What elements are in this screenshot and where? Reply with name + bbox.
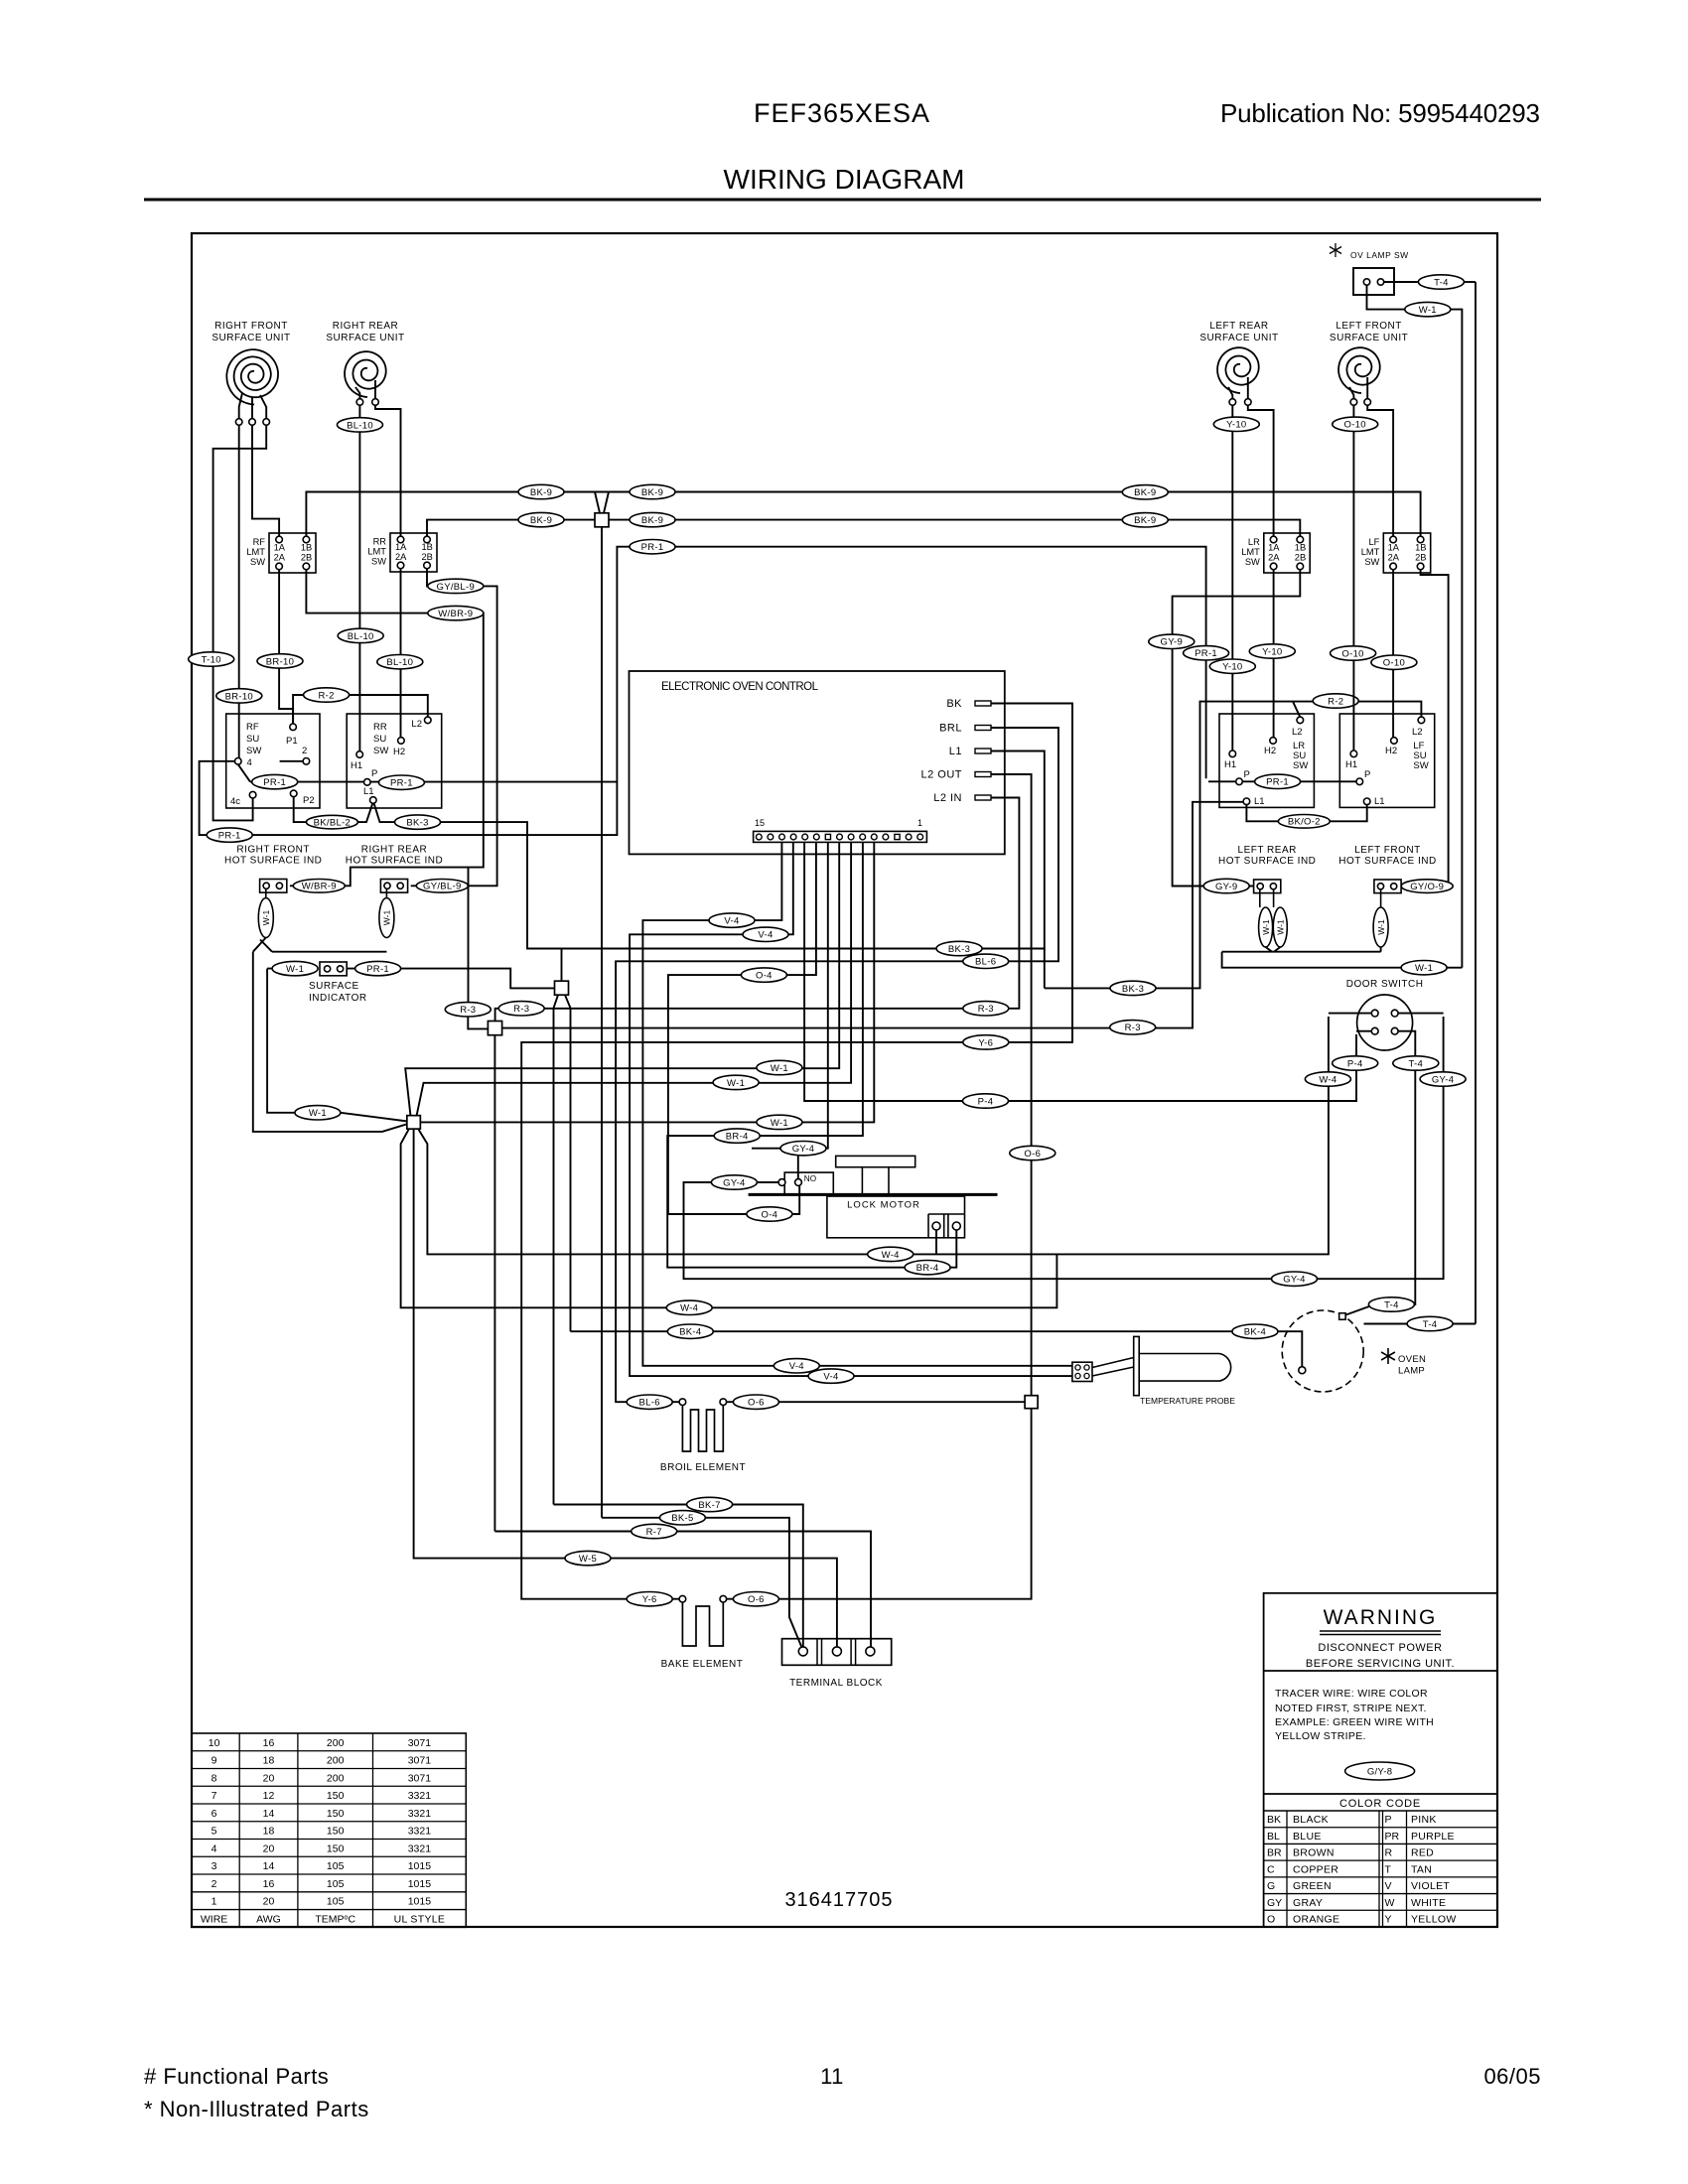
wire P-4: EOC terminal 11 to door switch bbox=[804, 842, 1356, 1101]
svg-text:BR: BR bbox=[1267, 1847, 1282, 1859]
svg-text:BK-3: BK-3 bbox=[1122, 984, 1144, 995]
svg-text:T-4: T-4 bbox=[1384, 1299, 1399, 1310]
wire label O-4 bbox=[747, 1207, 792, 1221]
svg-text:P-4: P-4 bbox=[1347, 1058, 1363, 1069]
svg-text:RIGHT REAR: RIGHT REAR bbox=[333, 321, 399, 332]
wire label GY-4 bbox=[780, 1142, 826, 1156]
svg-text:2: 2 bbox=[211, 1878, 217, 1890]
svg-text:1B: 1B bbox=[301, 543, 312, 553]
ov lamp sw bbox=[1335, 243, 1336, 257]
svg-text:LEFT FRONT: LEFT FRONT bbox=[1336, 321, 1401, 332]
svg-text:SW: SW bbox=[246, 746, 261, 756]
wire label GY-9 bbox=[1149, 634, 1195, 648]
svg-text:16: 16 bbox=[263, 1878, 275, 1890]
svg-text:L1: L1 bbox=[1374, 796, 1385, 807]
svg-text:7: 7 bbox=[211, 1790, 217, 1802]
svg-text:16: 16 bbox=[263, 1737, 275, 1749]
wire BK-9 bus top bbox=[306, 492, 1420, 537]
wire O-6: junction up to EOC L2 OUT bbox=[991, 774, 1032, 1396]
svg-text:1A: 1A bbox=[395, 542, 407, 552]
wire label R-2 bbox=[1313, 694, 1358, 708]
wire label W-1 bbox=[1401, 961, 1447, 975]
svg-text:R-7: R-7 bbox=[646, 1527, 662, 1538]
wire T-4: oven lamp right to top bbox=[1364, 1323, 1408, 1325]
wire GY/BL-9: RR LMT 2B to RR hot surface ind bbox=[411, 569, 497, 887]
wire label GY-4 bbox=[711, 1175, 757, 1189]
svg-text:SU: SU bbox=[373, 734, 386, 745]
wire PR-1 loop: 4 circle to right bus bbox=[200, 547, 1206, 835]
svg-text:5: 5 bbox=[211, 1826, 217, 1838]
wire BK-3: EOC L1 branch to R-2 bus bbox=[1044, 949, 1046, 989]
wire gauge table bbox=[192, 1733, 466, 1927]
svg-text:150: 150 bbox=[327, 1826, 345, 1838]
svg-text:G: G bbox=[1267, 1880, 1275, 1892]
wire R-2 branch to LR L2 bbox=[1293, 702, 1300, 718]
svg-text:L1: L1 bbox=[363, 786, 374, 797]
wire label W/BR-9 bbox=[428, 606, 484, 619]
svg-text:WARNING: WARNING bbox=[1324, 1606, 1438, 1629]
svg-text:PR-1: PR-1 bbox=[366, 964, 389, 975]
wire PR-1 long: RF SU 4 arm across to LF SU P bbox=[238, 764, 250, 782]
wire label BK/O-2 bbox=[1278, 815, 1330, 829]
svg-text:VIOLET: VIOLET bbox=[1411, 1880, 1450, 1892]
RR SU SW switch bbox=[347, 714, 442, 808]
wire R-3 right: junction 2 to LR L1 bbox=[502, 802, 1244, 1028]
svg-text:PR: PR bbox=[1385, 1831, 1400, 1843]
junction BK-9 V-split bbox=[595, 492, 600, 513]
junction square 2 bbox=[488, 1022, 501, 1035]
svg-text:BR-10: BR-10 bbox=[225, 691, 253, 702]
svg-text:SURFACE UNIT: SURFACE UNIT bbox=[1199, 333, 1278, 343]
svg-text:150: 150 bbox=[327, 1790, 345, 1802]
svg-text:LEFT FRONT: LEFT FRONT bbox=[1354, 845, 1420, 856]
wire label W-1 vertical under RR indicator bbox=[385, 889, 387, 898]
svg-text:R-3: R-3 bbox=[978, 1004, 994, 1015]
svg-text:200: 200 bbox=[327, 1772, 345, 1784]
wire W-4: junction 3 left leg to door switch bbox=[401, 1129, 1057, 1307]
svg-text:SW: SW bbox=[1293, 760, 1308, 771]
svg-text:SURFACE UNIT: SURFACE UNIT bbox=[211, 333, 290, 343]
svg-text:O-10: O-10 bbox=[1341, 648, 1363, 659]
svg-text:R-2: R-2 bbox=[1328, 696, 1343, 707]
wire label PR-1 bbox=[207, 828, 252, 842]
wire W-1 from ov lamp sw bbox=[1367, 285, 1405, 309]
svg-text:P2: P2 bbox=[303, 795, 315, 806]
svg-text:W-4: W-4 bbox=[882, 1250, 900, 1261]
wire Y-10: LR LMT 2A to LR SU H2 bbox=[1273, 570, 1275, 738]
svg-text:2B: 2B bbox=[1295, 553, 1306, 563]
wire label W-1 vertical under LF indicator bbox=[1380, 889, 1382, 907]
svg-text:1B: 1B bbox=[422, 542, 433, 552]
svg-text:W-4: W-4 bbox=[680, 1303, 698, 1314]
wire label O-6 bbox=[1010, 1146, 1055, 1160]
wire label Y-10 bbox=[1209, 659, 1255, 673]
svg-text:NO: NO bbox=[804, 1174, 816, 1183]
svg-text:L2: L2 bbox=[411, 719, 422, 730]
svg-text:3071: 3071 bbox=[408, 1737, 432, 1749]
wire label G/Y-8 example bbox=[1345, 1762, 1415, 1780]
svg-text:PR-1: PR-1 bbox=[1266, 777, 1289, 788]
wire label R-3 bbox=[498, 1002, 544, 1016]
svg-text:ELECTRONIC OVEN CONTROL: ELECTRONIC OVEN CONTROL bbox=[661, 681, 819, 693]
svg-text:LOCK MOTOR: LOCK MOTOR bbox=[847, 1200, 920, 1211]
svg-text:1A: 1A bbox=[1388, 543, 1400, 553]
svg-text:BK-9: BK-9 bbox=[641, 487, 663, 498]
svg-text:TEMPERATURE PROBE: TEMPERATURE PROBE bbox=[1140, 1396, 1235, 1406]
svg-text:GY: GY bbox=[1267, 1897, 1282, 1909]
svg-text:OVEN: OVEN bbox=[1398, 1354, 1426, 1365]
svg-text:18: 18 bbox=[263, 1826, 275, 1838]
svg-text:BK-9: BK-9 bbox=[530, 515, 552, 526]
svg-text:3071: 3071 bbox=[408, 1755, 432, 1767]
wire label T-10 bbox=[189, 652, 234, 666]
svg-text:W-1: W-1 bbox=[771, 1118, 788, 1129]
svg-text:H2: H2 bbox=[393, 747, 405, 757]
wire label O-10 bbox=[1331, 646, 1376, 660]
svg-text:RIGHT FRONT: RIGHT FRONT bbox=[236, 845, 310, 856]
wire BK-7: junction to terminal block 1 bbox=[554, 995, 559, 1504]
wire label BL-10 bbox=[377, 655, 423, 669]
wire GY-9: LR LMT 2B to LR hot surface ind bbox=[1173, 570, 1301, 635]
svg-text:W/BR-9: W/BR-9 bbox=[302, 882, 337, 892]
svg-text:4: 4 bbox=[211, 1843, 217, 1854]
svg-text:SW: SW bbox=[250, 557, 265, 567]
lock motor switch NO bbox=[784, 1172, 833, 1193]
wire LF coil right to LF LMT 1A bbox=[1367, 406, 1393, 536]
wire W-1: cross to junction 3 lower bbox=[253, 952, 407, 1132]
wire label R-7 bbox=[632, 1524, 677, 1538]
svg-text:HOT SURFACE IND: HOT SURFACE IND bbox=[346, 856, 443, 867]
wire label V-4 bbox=[808, 1369, 854, 1383]
wire W-1: junction 3 right to EOC terminal 5 bbox=[420, 842, 874, 1122]
svg-text:T-4: T-4 bbox=[1408, 1058, 1423, 1069]
svg-text:RF: RF bbox=[253, 537, 266, 547]
wire BL-6: EOC BRL to broil element bbox=[616, 728, 1058, 1402]
svg-text:RR: RR bbox=[373, 722, 387, 733]
svg-text:W-4: W-4 bbox=[1319, 1074, 1336, 1085]
svg-text:GY-4: GY-4 bbox=[792, 1144, 815, 1155]
svg-text:HOT SURFACE IND: HOT SURFACE IND bbox=[224, 856, 322, 867]
svg-text:10: 10 bbox=[209, 1737, 220, 1749]
svg-text:G/Y-8: G/Y-8 bbox=[1367, 1766, 1392, 1777]
svg-text:200: 200 bbox=[327, 1755, 345, 1767]
wire label W-4 bbox=[1305, 1072, 1350, 1086]
svg-text:NOTED FIRST, STRIPE NEXT.: NOTED FIRST, STRIPE NEXT. bbox=[1275, 1703, 1427, 1714]
wire label Y-6 bbox=[963, 1035, 1009, 1049]
wire label V-4 bbox=[774, 1359, 819, 1373]
wire BK-9 bus second bbox=[427, 520, 595, 537]
wire label Y-10 bbox=[1249, 644, 1295, 658]
svg-text:WIRING DIAGRAM: WIRING DIAGRAM bbox=[724, 164, 965, 195]
svg-text:O-4: O-4 bbox=[756, 971, 773, 982]
svg-text:UL STYLE: UL STYLE bbox=[394, 1913, 446, 1925]
svg-text:PR-1: PR-1 bbox=[218, 831, 241, 842]
wire BL-10: RR LMT 2A to H2 bbox=[400, 569, 402, 737]
wire label W-1 bbox=[757, 1060, 802, 1074]
wire label BK-4 bbox=[667, 1324, 713, 1338]
svg-text:BK-9: BK-9 bbox=[530, 487, 552, 498]
wire LR coil right to LR LMT 1A bbox=[1248, 406, 1274, 536]
wire label W-4 bbox=[868, 1247, 914, 1261]
svg-text:3321: 3321 bbox=[408, 1808, 432, 1820]
LR SU SW switch bbox=[1219, 714, 1314, 807]
svg-text:V-4: V-4 bbox=[823, 1372, 838, 1383]
svg-text:1: 1 bbox=[211, 1896, 217, 1908]
wire BK/BL-2: P2 to RR L1 bbox=[294, 797, 373, 822]
svg-text:ORANGE: ORANGE bbox=[1293, 1914, 1339, 1926]
wire label PR-1 bbox=[252, 774, 298, 788]
wire label T-4 bbox=[1368, 1297, 1414, 1311]
svg-text:WHITE: WHITE bbox=[1411, 1897, 1446, 1909]
svg-text:BK: BK bbox=[946, 698, 962, 710]
svg-text:P-4: P-4 bbox=[978, 1096, 994, 1107]
svg-text:BK-7: BK-7 bbox=[698, 1500, 720, 1511]
LR LMT SW switch bbox=[1264, 533, 1310, 573]
temperature probe bbox=[1072, 1362, 1092, 1381]
svg-text:BK-3: BK-3 bbox=[948, 944, 970, 955]
svg-text:8: 8 bbox=[211, 1772, 217, 1784]
main diagram border bbox=[192, 233, 1497, 1927]
svg-text:R-3: R-3 bbox=[460, 1005, 476, 1016]
svg-text:20: 20 bbox=[263, 1843, 275, 1854]
wire label T-4 bbox=[1407, 1316, 1453, 1330]
bake element bbox=[679, 1595, 686, 1602]
svg-text:LMT: LMT bbox=[246, 547, 265, 557]
svg-text:Y-10: Y-10 bbox=[1262, 646, 1282, 657]
wire BL-10: RR coil terminal 1 to H1 bbox=[358, 405, 360, 751]
wire BK-4: junction to oven lamp bbox=[565, 995, 571, 1331]
svg-text:W-1: W-1 bbox=[1276, 919, 1286, 935]
svg-text:O-4: O-4 bbox=[762, 1209, 778, 1220]
svg-text:LMT: LMT bbox=[1241, 547, 1260, 557]
svg-text:W-5: W-5 bbox=[579, 1554, 597, 1565]
svg-text:W-1: W-1 bbox=[286, 964, 304, 975]
svg-text:TERMINAL BLOCK: TERMINAL BLOCK bbox=[789, 1678, 883, 1689]
svg-text:GRAY: GRAY bbox=[1293, 1897, 1323, 1909]
wire label BK-3 bbox=[1110, 981, 1156, 995]
svg-text:RF: RF bbox=[246, 722, 259, 733]
wire O-10: LF coil to H1 bbox=[1352, 406, 1354, 751]
svg-text:HOT SURFACE IND: HOT SURFACE IND bbox=[1218, 856, 1316, 867]
svg-text:1015: 1015 bbox=[408, 1878, 432, 1890]
wire label P-4 bbox=[963, 1094, 1009, 1108]
svg-text:V-4: V-4 bbox=[758, 930, 773, 941]
wire label BK-3 bbox=[395, 815, 441, 829]
svg-text:4: 4 bbox=[247, 757, 252, 768]
svg-text:SW: SW bbox=[371, 557, 386, 567]
svg-text:L1: L1 bbox=[949, 746, 962, 757]
svg-text:Y-6: Y-6 bbox=[642, 1594, 657, 1605]
svg-text:YELLOW: YELLOW bbox=[1411, 1914, 1457, 1926]
wire W-1 surface indicator left bbox=[267, 968, 295, 970]
wire label BR-4 bbox=[714, 1129, 760, 1143]
wire label GY/BL-9 bbox=[416, 880, 468, 893]
svg-text:LF: LF bbox=[1368, 537, 1379, 547]
svg-text:BK-9: BK-9 bbox=[1134, 515, 1156, 526]
svg-text:PURPLE: PURPLE bbox=[1411, 1831, 1455, 1843]
svg-text:1A: 1A bbox=[1268, 543, 1280, 553]
svg-text:1015: 1015 bbox=[408, 1860, 432, 1872]
wire label BR-4 bbox=[905, 1261, 950, 1275]
svg-text:150: 150 bbox=[327, 1808, 345, 1820]
svg-text:W-1: W-1 bbox=[382, 910, 392, 926]
svg-text:O-6: O-6 bbox=[748, 1398, 765, 1409]
svg-text:Publication No: 5995440293: Publication No: 5995440293 bbox=[1220, 98, 1540, 128]
svg-text:105: 105 bbox=[327, 1860, 345, 1872]
wire label V-4 bbox=[709, 913, 755, 927]
svg-text:V-4: V-4 bbox=[724, 916, 739, 927]
svg-text:14: 14 bbox=[263, 1808, 275, 1820]
wire label BL-10 bbox=[338, 418, 383, 432]
LF SU SW switch bbox=[1339, 714, 1434, 807]
svg-text:PR-1: PR-1 bbox=[390, 778, 413, 789]
wire label GY/O-9 bbox=[1401, 880, 1453, 893]
wire label W-1 vertical under RF indicator bbox=[265, 889, 267, 898]
wire label W/BR-9 bbox=[293, 880, 345, 893]
wire label PR-1 bbox=[1255, 774, 1301, 788]
wire R-7: junction 2 to terminal block 3 bbox=[493, 1035, 495, 1532]
svg-text:2A: 2A bbox=[274, 553, 286, 563]
svg-text:W-1: W-1 bbox=[261, 910, 271, 926]
svg-text:DISCONNECT POWER: DISCONNECT POWER bbox=[1318, 1642, 1442, 1654]
svg-text:GY/BL-9: GY/BL-9 bbox=[423, 882, 462, 892]
svg-text:H1: H1 bbox=[351, 760, 362, 771]
svg-text:INDICATOR: INDICATOR bbox=[309, 993, 367, 1004]
wire W-4: junction 3 right leg along lock motor to door switch bbox=[418, 1017, 1329, 1254]
wire label BK-4 bbox=[1232, 1324, 1278, 1338]
svg-text:BL-6: BL-6 bbox=[975, 957, 996, 968]
svg-text:PINK: PINK bbox=[1411, 1814, 1437, 1826]
svg-text:HOT SURFACE IND: HOT SURFACE IND bbox=[1338, 856, 1436, 867]
svg-text:LMT: LMT bbox=[1361, 547, 1380, 557]
lock motor bbox=[836, 1156, 915, 1166]
wire label BR-10 bbox=[257, 654, 303, 668]
svg-text:4c: 4c bbox=[230, 796, 240, 807]
svg-text:R-3: R-3 bbox=[1125, 1023, 1141, 1033]
svg-text:105: 105 bbox=[327, 1896, 345, 1908]
svg-text:SW: SW bbox=[373, 746, 388, 756]
svg-text:PR-1: PR-1 bbox=[263, 777, 286, 788]
svg-text:BEFORE SERVICING UNIT.: BEFORE SERVICING UNIT. bbox=[1306, 1658, 1455, 1670]
svg-text:O-10: O-10 bbox=[1344, 420, 1366, 431]
wire label GY-4 bbox=[1420, 1072, 1466, 1086]
svg-text:WIRE: WIRE bbox=[201, 1913, 227, 1925]
electronic oven control box bbox=[630, 671, 1005, 854]
svg-text:GY-9: GY-9 bbox=[1161, 637, 1184, 648]
svg-text:BK-4: BK-4 bbox=[679, 1327, 701, 1338]
svg-text:2B: 2B bbox=[301, 553, 312, 563]
wire label R-3 bbox=[445, 1003, 491, 1017]
junction square O-6 bbox=[1025, 1396, 1038, 1409]
wire label R-3 bbox=[1110, 1021, 1156, 1034]
svg-text:FEF365XESA: FEF365XESA bbox=[754, 98, 930, 128]
svg-text:BK/BL-2: BK/BL-2 bbox=[314, 818, 351, 829]
junction square BK wires bbox=[561, 949, 563, 982]
wire W-5: junction 3 center to terminal block 2 bbox=[414, 1129, 837, 1647]
svg-text:BR-4: BR-4 bbox=[726, 1132, 749, 1143]
svg-text:BRL: BRL bbox=[939, 723, 962, 735]
wire GY/O-9: LF LMT 2B to LF hot surface ind bbox=[1405, 570, 1449, 887]
svg-text:DOOR SWITCH: DOOR SWITCH bbox=[1346, 979, 1424, 990]
wire label PR-1 bbox=[355, 961, 401, 975]
wire label O-10 bbox=[1371, 655, 1417, 669]
wire label R-2 bbox=[304, 688, 350, 702]
svg-text:H2: H2 bbox=[1385, 746, 1397, 756]
color code table bbox=[1264, 1810, 1497, 1812]
svg-text:RIGHT FRONT: RIGHT FRONT bbox=[214, 321, 288, 332]
wire label BL-6 bbox=[963, 954, 1009, 968]
svg-text:SW: SW bbox=[1245, 557, 1260, 567]
svg-text:2A: 2A bbox=[1388, 553, 1400, 563]
wire label Y-10 bbox=[1213, 417, 1259, 431]
EOC terminal strip bbox=[754, 831, 927, 842]
svg-text:H2: H2 bbox=[1264, 746, 1276, 756]
svg-text:BAKE ELEMENT: BAKE ELEMENT bbox=[661, 1659, 744, 1670]
title underline bbox=[144, 199, 1541, 202]
svg-text:W/BR-9: W/BR-9 bbox=[438, 609, 473, 619]
svg-text:COLOR CODE: COLOR CODE bbox=[1339, 1798, 1421, 1810]
wire W-1: indicator to junction 3 upper bbox=[267, 969, 295, 1113]
svg-text:BLUE: BLUE bbox=[1293, 1831, 1322, 1843]
svg-text:RR: RR bbox=[373, 537, 387, 547]
svg-text:LMT: LMT bbox=[367, 547, 386, 557]
svg-text:R-3: R-3 bbox=[513, 1004, 529, 1015]
svg-text:SW: SW bbox=[1413, 760, 1428, 771]
RF LMT SW switch bbox=[269, 533, 316, 573]
svg-text:# Functional Parts: # Functional Parts bbox=[144, 2064, 329, 2089]
svg-text:W: W bbox=[1385, 1897, 1395, 1909]
wire T-4 from ov lamp sw bbox=[1384, 281, 1419, 283]
svg-text:3321: 3321 bbox=[408, 1843, 432, 1854]
svg-text:BK-9: BK-9 bbox=[1134, 487, 1156, 498]
wire label BK-9 ovals bbox=[518, 484, 564, 498]
svg-text:T-4: T-4 bbox=[1434, 277, 1449, 288]
svg-text:BL-10: BL-10 bbox=[347, 420, 373, 431]
wire label BK-5 bbox=[659, 1511, 705, 1525]
svg-text:150: 150 bbox=[327, 1843, 345, 1854]
svg-text:V-4: V-4 bbox=[789, 1361, 804, 1372]
wire label GY-4 bbox=[1272, 1272, 1318, 1286]
terminal block bbox=[782, 1639, 892, 1666]
svg-text:BL: BL bbox=[1267, 1831, 1280, 1843]
svg-text:GY-9: GY-9 bbox=[1215, 882, 1238, 892]
wire RF coil terminal 1 down to RF SU SW 4 bbox=[238, 425, 240, 757]
svg-text:BR-4: BR-4 bbox=[916, 1263, 939, 1274]
svg-text:W-1: W-1 bbox=[1261, 919, 1271, 935]
right rear hot surface indicator bbox=[380, 880, 407, 893]
svg-text:2A: 2A bbox=[395, 552, 407, 562]
svg-text:H1: H1 bbox=[1345, 759, 1357, 770]
wire RR coil terminal 2 to RR LMT 1A bbox=[375, 405, 401, 536]
svg-text:2B: 2B bbox=[1415, 553, 1426, 563]
svg-text:AWG: AWG bbox=[256, 1913, 281, 1925]
svg-text:LR: LR bbox=[1248, 537, 1260, 547]
svg-text:3321: 3321 bbox=[408, 1790, 432, 1802]
wire W-1: junction 3 to EOC terminal 8 bbox=[405, 842, 839, 1116]
svg-text:EXAMPLE: GREEN WIRE WITH: EXAMPLE: GREEN WIRE WITH bbox=[1275, 1716, 1434, 1728]
left front hot surface indicator bbox=[1374, 880, 1401, 893]
wire label BL-10 bbox=[338, 628, 383, 642]
right front hot surface indicator bbox=[260, 880, 287, 893]
wire label W-1 bbox=[272, 961, 318, 975]
svg-text:BK-3: BK-3 bbox=[406, 818, 428, 829]
wire label GY/BL-9 bbox=[428, 579, 484, 593]
svg-text:SURFACE UNIT: SURFACE UNIT bbox=[326, 333, 404, 343]
svg-text:O: O bbox=[1267, 1914, 1275, 1926]
RR LMT SW switch bbox=[390, 533, 437, 572]
svg-text:9: 9 bbox=[211, 1755, 217, 1767]
wire label O-6 bbox=[733, 1395, 778, 1409]
